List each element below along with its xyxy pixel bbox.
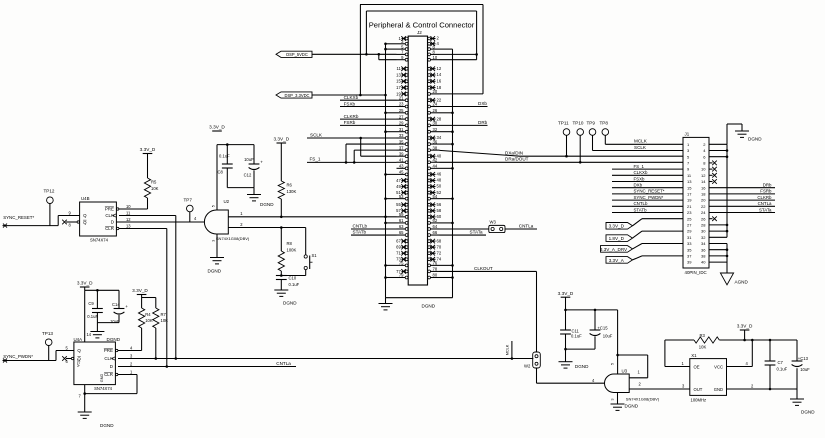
svg-text:45: 45 <box>399 170 404 175</box>
test point TP10 <box>573 120 584 162</box>
test point TP7 <box>184 198 194 223</box>
J2 pin 67 <box>396 239 408 244</box>
J2 pin 11 <box>396 66 408 71</box>
J1 pins 9/10 numbers <box>687 167 706 172</box>
svg-text:+: + <box>125 304 128 309</box>
svg-text:U2: U2 <box>224 199 230 204</box>
svg-text:48: 48 <box>437 178 442 183</box>
AND gate U3 SN74X1G08(DBV) <box>592 363 660 401</box>
svg-text:12: 12 <box>437 66 442 71</box>
svg-text:18: 18 <box>701 192 706 197</box>
svg-text:CLKRb: CLKRb <box>344 114 359 119</box>
J2 pin 59 <box>397 212 409 218</box>
J2 pin 4 <box>428 41 440 46</box>
J2 pin 2 <box>428 36 440 41</box>
svg-text:FSXb: FSXb <box>344 101 356 106</box>
svg-text:30: 30 <box>701 229 706 234</box>
svg-text:50: 50 <box>437 184 442 189</box>
svg-text:U4A: U4A <box>74 337 83 342</box>
svg-text:10: 10 <box>701 167 706 172</box>
svg-text:W2: W2 <box>524 364 531 369</box>
J2 pin 37 <box>397 145 409 151</box>
svg-text:38: 38 <box>701 254 706 259</box>
svg-text:FSRb: FSRb <box>344 120 356 125</box>
svg-text:R8: R8 <box>287 241 293 246</box>
svg-text:3.3V_A: 3.3V_A <box>609 258 625 263</box>
svg-text:STATa: STATa <box>759 207 772 212</box>
U3 output wire to W2 <box>537 382 605 384</box>
J2 pin 78 <box>428 267 440 273</box>
J2 pin 79 <box>397 273 409 279</box>
svg-text:DGND: DGND <box>100 423 114 428</box>
wire/net SYNC_PWDN* to J1 <box>612 195 683 200</box>
svg-text:DXb: DXb <box>478 101 487 106</box>
J2 pin 3 <box>397 39 409 45</box>
svg-text:26: 26 <box>433 108 438 113</box>
svg-text:100K: 100K <box>287 248 297 253</box>
svg-text:CLR: CLR <box>104 372 113 377</box>
wire/net CNTLb to J1 <box>612 201 683 206</box>
test point TP8 <box>600 120 609 144</box>
svg-text:0.1uF: 0.1uF <box>777 367 788 372</box>
J2 pin 19 <box>396 91 408 96</box>
J2 pin 33 <box>397 133 409 139</box>
svg-text:79: 79 <box>399 273 404 278</box>
svg-text:GND: GND <box>714 387 723 392</box>
U2 ground DGND pin 3 <box>208 234 225 274</box>
svg-text:54: 54 <box>433 194 438 199</box>
svg-text:59: 59 <box>399 212 404 217</box>
J2 pin 14 <box>428 72 442 77</box>
svg-text:71: 71 <box>396 251 401 256</box>
svg-text:67: 67 <box>396 239 401 244</box>
U3 VCC wire from 3.3V rail <box>616 310 619 374</box>
svg-text:+: + <box>260 159 263 164</box>
svg-text:21: 21 <box>687 204 692 209</box>
svg-text:DRb: DRb <box>478 120 488 125</box>
svg-text:J2: J2 <box>417 30 422 35</box>
svg-text:DGND: DGND <box>422 304 436 309</box>
U3 input 1 loop wire <box>618 355 648 378</box>
svg-text:SN74X74: SN74X74 <box>94 386 113 391</box>
J2 left ground bus wire <box>384 43 396 298</box>
svg-text:32: 32 <box>701 235 706 240</box>
power 3.3V_D above R5 <box>140 147 156 158</box>
J1 pins 3/4 numbers <box>687 148 706 153</box>
J2 pin 46 <box>428 172 442 177</box>
svg-text:SYNC_RESET*: SYNC_RESET* <box>3 215 34 220</box>
J1 pins 31/32 numbers <box>687 235 706 240</box>
U5A pin 14 VCC stem <box>85 290 92 342</box>
svg-text:CNTLa: CNTLa <box>276 361 291 366</box>
J2 pin 57 <box>396 208 408 213</box>
svg-text:33: 33 <box>687 241 692 246</box>
J2 pin 27 <box>397 114 409 120</box>
wire drop to pin 9 <box>379 54 397 59</box>
svg-text:11: 11 <box>126 211 131 216</box>
oscillator X1 100MHz <box>690 353 727 402</box>
wire/net CLKRb from J1 <box>709 195 775 200</box>
J2 pin 66 <box>428 230 440 236</box>
C10 ground DGND <box>274 280 297 306</box>
svg-text:R3: R3 <box>700 333 706 338</box>
J1 no-connect pin row 6 <box>709 173 717 178</box>
svg-text:44: 44 <box>433 164 438 169</box>
svg-text:56: 56 <box>437 202 442 207</box>
svg-text:29: 29 <box>399 121 404 126</box>
svg-text:FS_1: FS_1 <box>634 164 645 169</box>
wire/net MCLK stub <box>505 341 512 359</box>
svg-text:X1: X1 <box>691 353 697 358</box>
svg-text:70: 70 <box>437 244 442 249</box>
svg-text:OUT: OUT <box>694 387 703 392</box>
svg-text:31: 31 <box>687 235 692 240</box>
svg-text:0.1uF: 0.1uF <box>219 153 230 158</box>
J2 pin 75 <box>397 261 409 267</box>
U4B pin 9 output wire <box>58 211 79 226</box>
svg-text:TP7: TP7 <box>184 198 193 203</box>
svg-text:12: 12 <box>126 217 131 222</box>
svg-text:CLKXb: CLKXb <box>634 170 648 175</box>
svg-text:SYNC_RESET*: SYNC_RESET* <box>634 189 665 194</box>
capacitor C7 0.1uF <box>765 340 788 389</box>
svg-text:FSXb: FSXb <box>634 176 646 181</box>
J2 pin 77 <box>396 269 408 274</box>
svg-text:15: 15 <box>396 79 401 84</box>
X1 pin 2 GND wire <box>727 384 798 391</box>
svg-text:34: 34 <box>437 135 442 140</box>
ground DGND top right <box>727 124 762 144</box>
wire/net FS_1 to J1 <box>612 164 683 169</box>
J2 pin 60 <box>428 214 442 219</box>
svg-text:17: 17 <box>687 192 692 197</box>
wire/net FSRb to J2 pin 29 <box>340 120 397 125</box>
power 3.3V_D for U5A <box>77 281 119 292</box>
svg-text:MCLK: MCLK <box>505 344 509 355</box>
svg-text:DRa/DOUT: DRa/DOUT <box>505 157 529 162</box>
C11 C15 ground DGND <box>559 348 596 369</box>
svg-text:DGND: DGND <box>208 269 222 274</box>
power 3.3V_D rail bottom <box>558 291 618 311</box>
X1 pin 4 VCC wire <box>727 339 754 367</box>
svg-text:D: D <box>110 364 113 369</box>
J2 pin 74 <box>428 257 442 262</box>
svg-text:TP9: TP9 <box>587 120 596 125</box>
svg-text:+C13: +C13 <box>798 356 809 361</box>
J2 pin 32 <box>428 127 440 133</box>
svg-text:R7: R7 <box>161 312 167 317</box>
jumper W2 <box>524 352 540 383</box>
J2 pin 12 <box>428 66 442 71</box>
J1 pins 7/8 numbers <box>687 161 706 166</box>
svg-text:64: 64 <box>433 224 438 229</box>
svg-text:DGND: DGND <box>107 337 121 342</box>
svg-text:PRE: PRE <box>104 348 113 353</box>
svg-text:CLKRb: CLKRb <box>757 195 772 200</box>
svg-text:68: 68 <box>437 238 442 243</box>
svg-text:16: 16 <box>701 185 706 190</box>
svg-text:OE: OE <box>694 365 700 370</box>
svg-text:55: 55 <box>396 202 401 207</box>
power flag 1.8V_D to J1 <box>606 231 683 241</box>
svg-text:TP12: TP12 <box>44 189 55 194</box>
svg-text:CNTLa: CNTLa <box>758 201 772 206</box>
svg-text:36: 36 <box>433 139 438 144</box>
wire DSP_5VDC to pin 7 <box>312 53 397 56</box>
wire/net CLKXb to J2 pin 21 <box>340 95 397 100</box>
svg-text:34: 34 <box>701 241 706 246</box>
svg-text:3.3V_D: 3.3V_D <box>273 137 289 142</box>
wire/net STATb to J1 <box>612 207 683 212</box>
svg-text:Q: Q <box>77 348 81 353</box>
svg-text:R5: R5 <box>151 180 157 185</box>
svg-text:C8: C8 <box>218 169 224 174</box>
test point TP12 <box>44 189 55 226</box>
svg-text:10uF: 10uF <box>800 367 810 372</box>
svg-text:C12: C12 <box>244 172 252 177</box>
svg-text:69: 69 <box>396 245 401 250</box>
svg-text:10K: 10K <box>161 318 169 323</box>
power flag 3.3V_A to J1 <box>606 256 683 263</box>
svg-text:DGND: DGND <box>575 364 589 369</box>
svg-text:SCLK: SCLK <box>634 145 647 150</box>
J1 right ground bus to DGND <box>709 144 728 237</box>
J2 pin 29 <box>397 121 409 127</box>
svg-text:CLR: CLR <box>105 226 114 231</box>
svg-text:DGND: DGND <box>260 202 274 207</box>
svg-text:22: 22 <box>701 204 706 209</box>
svg-text:35: 35 <box>399 139 404 144</box>
svg-text:AGND: AGND <box>735 279 749 284</box>
svg-text:14: 14 <box>437 72 442 77</box>
wire/net DXb to J1 <box>612 183 683 188</box>
AND gate U2 SN74X1G08(DBV) <box>194 199 250 242</box>
J1 pins 5/6 numbers <box>687 154 706 159</box>
J2 pin 55 <box>396 202 408 207</box>
wire J2 pin 64 to W3 <box>440 228 489 230</box>
svg-text:78: 78 <box>433 267 438 272</box>
resistor R5 10K <box>144 158 158 209</box>
svg-text:10K: 10K <box>151 186 159 191</box>
J1 pins 35/36 numbers <box>687 247 706 252</box>
J2 pin 56 <box>428 202 442 207</box>
J2 pin 68 <box>428 238 442 243</box>
svg-text:30: 30 <box>433 121 438 126</box>
svg-text:75: 75 <box>399 261 404 266</box>
X1 pin 1 OE wire <box>665 340 690 367</box>
svg-text:+C15: +C15 <box>597 325 608 330</box>
svg-text:C10: C10 <box>289 275 297 280</box>
J2 pin 39 <box>397 151 409 157</box>
svg-text:W3: W3 <box>490 220 497 225</box>
svg-text:65: 65 <box>399 230 404 235</box>
J2 pin 22 <box>428 97 442 102</box>
power flag DSP_3.3VDC <box>276 92 312 98</box>
U2 output wire to U4B D <box>116 221 204 223</box>
svg-text:TP11: TP11 <box>558 120 569 125</box>
svg-text:61: 61 <box>399 218 404 223</box>
wire/net DXb from J2 pin 24 <box>440 101 488 107</box>
svg-text:TP13: TP13 <box>42 331 53 336</box>
wire pin 37 branch <box>354 150 396 162</box>
capacitor C10 0.1uF <box>276 275 300 287</box>
svg-text:3.3V_D: 3.3V_D <box>737 324 753 329</box>
svg-text:13: 13 <box>126 224 131 229</box>
svg-text:3.3V_D: 3.3V_D <box>77 281 93 286</box>
wire/net FS_1 to J2 pin 41 <box>307 156 397 163</box>
svg-text:DGND: DGND <box>801 410 815 415</box>
svg-text:10: 10 <box>126 204 131 209</box>
svg-text:53: 53 <box>399 194 404 199</box>
J1 no-connect pin row 4 <box>709 161 717 166</box>
svg-text:3: 3 <box>212 240 216 242</box>
svg-text:28: 28 <box>701 223 706 228</box>
svg-text:3: 3 <box>611 399 615 401</box>
svg-text:38: 38 <box>433 145 438 150</box>
svg-text:CNTLa: CNTLa <box>519 223 534 228</box>
svg-text:62: 62 <box>433 218 438 223</box>
svg-text:DSP_5VDC: DSP_5VDC <box>286 52 308 57</box>
svg-text:42: 42 <box>433 157 438 162</box>
svg-text:27: 27 <box>687 223 692 228</box>
power flag 3.3V_D to J1 <box>606 219 683 229</box>
svg-text:J1: J1 <box>685 131 690 136</box>
svg-text:14: 14 <box>701 179 706 184</box>
J1 pins 13/14 numbers <box>687 179 706 184</box>
J2 pin 15 <box>396 79 408 84</box>
svg-text:43: 43 <box>399 164 404 169</box>
U4B pin 10 PRE wire to R5 <box>119 204 148 209</box>
J2 pin 42 <box>428 157 440 163</box>
svg-text:5: 5 <box>212 205 216 207</box>
wire CLK flip-flops vertical <box>175 216 177 359</box>
svg-text:39: 39 <box>399 151 404 156</box>
svg-text:23: 23 <box>399 102 404 107</box>
wire/net CNTLa from W3 <box>505 223 537 229</box>
svg-text:35: 35 <box>687 247 692 252</box>
svg-text:5: 5 <box>611 363 615 365</box>
svg-text:STATb: STATb <box>353 230 367 235</box>
J2 bottom ground rail wire <box>386 297 453 299</box>
svg-text:CLKOUT: CLKOUT <box>474 266 493 271</box>
J2 pin 43 <box>397 164 409 170</box>
wire/net FSXb to J2 pin 23 <box>340 101 397 106</box>
J1 no-connect pin row 13 <box>709 216 717 221</box>
svg-text:21: 21 <box>399 95 404 100</box>
power flag DSP_5VDC <box>276 51 312 57</box>
flip-flop U4B SN74X74 <box>77 196 119 242</box>
J2 pin 23 <box>397 102 409 108</box>
J2 pin 44 <box>428 164 440 170</box>
svg-text:72: 72 <box>437 250 442 255</box>
svg-text:TP8: TP8 <box>600 120 609 125</box>
wire/net STATb to J2 pin 65 <box>351 230 397 235</box>
svg-text:DSP_3.3VDC: DSP_3.3VDC <box>284 93 309 98</box>
J2 pin 26 <box>428 108 440 114</box>
svg-text:DXa/DIN: DXa/DIN <box>505 151 523 156</box>
svg-text:24: 24 <box>701 210 706 215</box>
J2 pin 18 <box>428 85 442 90</box>
svg-text:U3: U3 <box>622 369 628 374</box>
svg-text:GND: GND <box>100 374 104 383</box>
J2 pin 40 <box>428 153 442 158</box>
svg-text:10uF: 10uF <box>244 157 254 162</box>
J2 pin 76 <box>428 261 440 267</box>
J1 pins 29/30 numbers <box>687 229 706 234</box>
svg-text:STATb: STATb <box>634 207 648 212</box>
J2 pin 36 <box>428 139 440 145</box>
svg-text:SYNC_PWDN*: SYNC_PWDN* <box>3 354 33 359</box>
svg-text:76: 76 <box>433 261 438 266</box>
J2 pin 52 <box>428 190 442 195</box>
capacitor C9 0.1uF <box>87 290 103 322</box>
wire/net DRb from J2 pin 30 <box>440 120 488 126</box>
svg-text:DGND: DGND <box>625 404 639 409</box>
svg-text:0.1uF: 0.1uF <box>571 334 582 339</box>
svg-text:3.3V_D: 3.3V_D <box>132 288 148 293</box>
wire/net STATa from J1 <box>709 207 775 212</box>
J1 pins 33/34 numbers <box>687 241 706 246</box>
J2 pin 1 <box>398 36 408 41</box>
svg-text:DRb: DRb <box>763 183 772 188</box>
svg-text:SYNC_PWDN*: SYNC_PWDN* <box>634 195 664 200</box>
U5A pin 1 CLR wire to ground <box>85 370 137 394</box>
wire/net SYNC_PWDN* <box>3 354 57 362</box>
J2 pin 45 <box>397 170 409 176</box>
svg-text:47: 47 <box>396 178 401 183</box>
J1 pins 25/26 numbers <box>687 216 706 221</box>
resistor R6 130K <box>278 143 296 217</box>
J2 pin 28 <box>428 116 442 121</box>
svg-text:12: 12 <box>701 173 706 178</box>
C13 ground DGND <box>790 389 815 415</box>
connector J1 40PIN_IDC body <box>683 131 709 274</box>
wire/net CNTLb to J2 pin 63 <box>351 224 397 229</box>
svg-text:PRE: PRE <box>105 207 114 212</box>
svg-text:10uF: 10uF <box>603 334 613 339</box>
svg-text:32: 32 <box>433 127 438 132</box>
svg-text:CNTLb: CNTLb <box>353 224 368 229</box>
svg-text:SN74X74: SN74X74 <box>90 238 109 243</box>
svg-text:C7: C7 <box>778 360 784 365</box>
U4B pin 11 CLK wire <box>119 211 176 216</box>
J1 pins 11/12 numbers <box>687 173 706 178</box>
svg-text:CLKXb: CLKXb <box>344 95 359 100</box>
wire/net SCLK to J2 pin 33 <box>307 132 397 139</box>
svg-text:MCLK: MCLK <box>634 139 648 144</box>
wire/net DRb from J1 <box>709 183 775 188</box>
svg-text:FSRb: FSRb <box>760 189 772 194</box>
svg-text:29: 29 <box>687 229 692 234</box>
J2 pin 70 <box>428 244 442 249</box>
ground AGND <box>720 273 748 285</box>
wire/net CLKXb to J1 <box>612 170 683 175</box>
svg-text:58: 58 <box>437 208 442 213</box>
U2 input 2 wire <box>228 227 305 229</box>
U4B pin 13 CLR wire <box>119 217 167 229</box>
svg-text:15: 15 <box>687 185 692 190</box>
svg-text:22: 22 <box>437 97 442 102</box>
svg-text:DGND: DGND <box>748 137 762 142</box>
U5A pin 6 no-connect <box>62 356 71 364</box>
U3 input 2 wire from X1 OUT <box>629 384 690 390</box>
svg-text:10: 10 <box>433 55 438 60</box>
J2 pin 25 <box>397 108 409 114</box>
svg-text:74: 74 <box>437 257 442 262</box>
J2 pin 58 <box>428 208 442 213</box>
capacitor C15 10uF polarized <box>590 310 613 349</box>
svg-text:37: 37 <box>687 254 692 259</box>
